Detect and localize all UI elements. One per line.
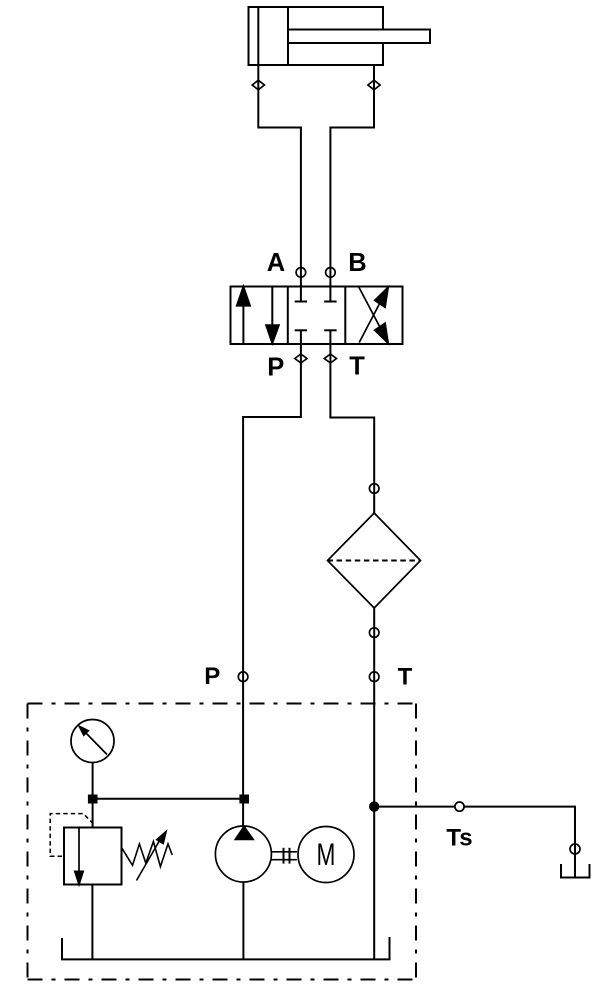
wire T from filter to tank line (373, 608, 375, 959)
reservoir bottom line (62, 937, 390, 959)
test circle port A (296, 268, 306, 278)
svg-text:P: P (204, 663, 220, 690)
power unit boundary right (415, 704, 417, 980)
wire gauge stem (92, 763, 94, 828)
junction gauge line (89, 796, 97, 803)
svg-text:T: T (349, 353, 365, 381)
power unit boundary bottom (28, 979, 417, 981)
diamond port P below valve (295, 354, 307, 363)
pressure gauge PG (71, 720, 114, 763)
svg-text:Ts: Ts (446, 824, 472, 851)
wire gauge to P (93, 798, 244, 800)
wire pump suction (242, 882, 244, 959)
junction T line (370, 802, 378, 810)
wire Ts (374, 807, 575, 878)
piston rod (288, 30, 430, 44)
power unit boundary left (27, 704, 29, 980)
valve divider right (344, 287, 346, 345)
valve center box blocked port T (324, 330, 336, 344)
test circle P at station (238, 672, 248, 682)
test circle Ts (455, 802, 464, 811)
power unit boundary top (28, 703, 417, 705)
relief valve flow arrow (75, 828, 83, 885)
filter element dashed (328, 560, 421, 562)
wire cylinder left port down (258, 65, 301, 287)
relief valve drain wire (91, 885, 93, 960)
valve divider left (287, 287, 289, 345)
relief valve RV body (64, 828, 122, 885)
relief valve pilot dashed line (50, 814, 92, 857)
svg-text:M: M (317, 836, 336, 872)
valve center box blocked port P (295, 330, 307, 344)
valve body U1 (231, 287, 403, 345)
valve left box up arrow (237, 287, 250, 344)
svg-text:A: A (267, 249, 285, 277)
valve center box blocked port A (295, 287, 307, 302)
svg-text:P: P (267, 354, 284, 382)
cylinder body (249, 7, 384, 65)
svg-text:B: B (348, 249, 366, 277)
piston (287, 7, 289, 65)
filter F1 (328, 513, 421, 608)
pump P1 (215, 826, 271, 882)
coupling diamond right port (368, 80, 380, 90)
wire T from valve to filter (330, 344, 374, 513)
relief valve spring (122, 842, 172, 867)
test circle on T line below filter (369, 628, 379, 638)
valve right box cross arrow 2 (359, 287, 388, 343)
junction P line (240, 796, 248, 803)
wire P from valve to pump (243, 344, 301, 826)
valve right box cross arrow 1 (359, 288, 388, 343)
valve center box blocked port B (324, 287, 336, 302)
diamond port T below valve (324, 354, 336, 363)
tank Ts (561, 864, 590, 878)
motor M1 (298, 827, 354, 883)
valve left box down arrow (266, 287, 279, 344)
coupling shaft (272, 848, 298, 864)
relief valve adjust arrow (137, 832, 166, 881)
test circle port B (326, 268, 336, 278)
svg-text:T: T (398, 664, 413, 691)
coupling diamond left port (252, 80, 264, 90)
test circle T at station (369, 672, 379, 682)
test circle on T line above filter (369, 484, 379, 494)
cylinder cap inner line (257, 7, 259, 65)
wire cylinder right port down (330, 65, 374, 287)
test circle tank drop (570, 844, 580, 854)
